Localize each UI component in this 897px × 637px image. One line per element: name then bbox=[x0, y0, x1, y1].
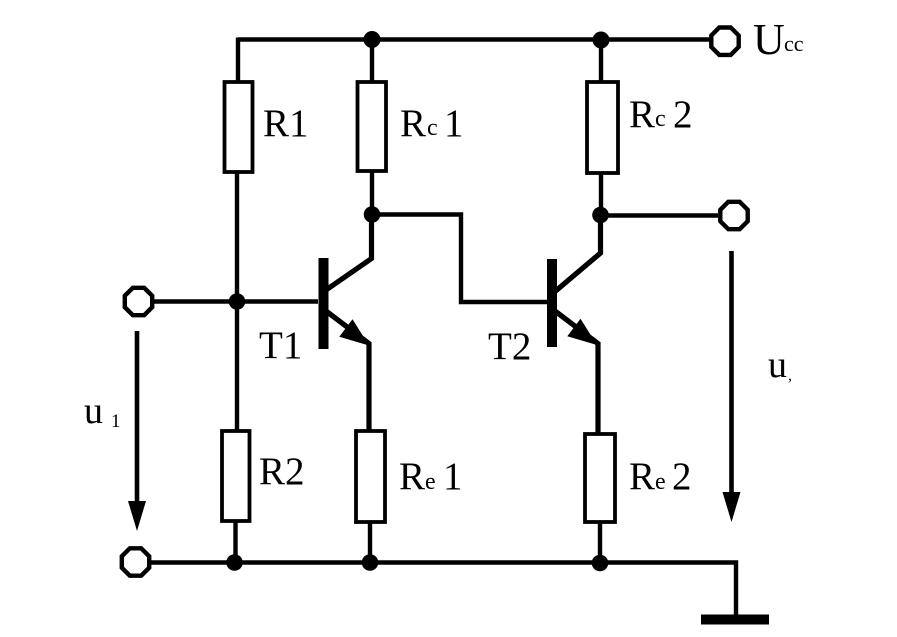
wire output bbox=[601, 213, 718, 217]
wire T1 base input bbox=[153, 299, 318, 303]
ground bbox=[701, 615, 769, 625]
transistor T1 bbox=[319, 214, 372, 432]
terminal Ucc bbox=[711, 28, 738, 55]
svg-text:R: R bbox=[400, 102, 426, 145]
svg-text:1: 1 bbox=[444, 102, 464, 145]
wire coupling T1 collector to T2 base bbox=[372, 215, 547, 303]
node top rail Rc2 dot bbox=[593, 32, 610, 49]
resistor Re2 bbox=[585, 434, 615, 522]
svg-text:cc: cc bbox=[784, 31, 804, 56]
resistor Rc1 bbox=[358, 82, 387, 171]
arrow u output voltage bbox=[723, 251, 741, 522]
node input junction dot bbox=[229, 293, 246, 310]
label u output bbox=[768, 344, 792, 386]
label Re2 bbox=[629, 455, 692, 498]
resistor R1 bbox=[225, 82, 253, 172]
terminal bottom-left bbox=[122, 548, 149, 575]
svg-text:e: e bbox=[655, 469, 666, 495]
wire bottom ground rail bbox=[151, 563, 736, 617]
transistor T2 bbox=[547, 215, 601, 435]
svg-text:R1: R1 bbox=[263, 102, 309, 145]
terminal output bbox=[720, 202, 747, 229]
svg-text:1: 1 bbox=[111, 411, 121, 432]
node T2 collector dot bbox=[592, 207, 609, 224]
svg-text:R: R bbox=[629, 455, 655, 498]
arrow u1 input voltage bbox=[128, 331, 146, 531]
resistor Re1 bbox=[356, 431, 385, 522]
node top rail Rc1 dot bbox=[364, 31, 381, 48]
svg-text:T2: T2 bbox=[488, 325, 531, 368]
wire Re2 bottom stub bbox=[598, 522, 602, 564]
svg-text:u: u bbox=[768, 344, 787, 386]
node bottom Re1 dot bbox=[362, 554, 379, 571]
svg-text:R: R bbox=[399, 455, 425, 498]
wire Rc1 bottom stub bbox=[370, 171, 374, 215]
label Rc2 bbox=[629, 93, 693, 136]
node bottom Re2 dot bbox=[592, 555, 609, 572]
wire Rc1 top stub bbox=[370, 40, 374, 85]
svg-text:U: U bbox=[753, 15, 785, 64]
svg-text:c: c bbox=[655, 106, 666, 132]
wire Re1 bottom stub bbox=[368, 521, 372, 563]
wire R2 bottom stub bbox=[233, 521, 237, 563]
wire top supply rail bbox=[238, 37, 710, 41]
svg-text:c: c bbox=[427, 115, 438, 141]
svg-text:u: u bbox=[84, 390, 103, 432]
wire R1 top stub bbox=[236, 38, 240, 85]
wire Rc2 top stub bbox=[599, 40, 603, 84]
svg-text:e: e bbox=[425, 469, 436, 495]
wire R1 to R2 bbox=[235, 172, 239, 432]
svg-text:2: 2 bbox=[673, 93, 693, 136]
svg-text:2: 2 bbox=[672, 455, 692, 498]
svg-text:1: 1 bbox=[443, 455, 463, 498]
label Rc1 bbox=[400, 102, 464, 145]
svg-text:T1: T1 bbox=[259, 324, 302, 367]
label u1 bbox=[84, 390, 121, 432]
node T1 collector dot bbox=[364, 206, 381, 223]
label Ucc bbox=[753, 15, 804, 64]
label Re1 bbox=[399, 455, 463, 498]
terminal input bbox=[125, 288, 152, 315]
wire Rc2 bottom stub bbox=[599, 173, 603, 216]
resistor R2 bbox=[222, 431, 250, 521]
svg-text:R2: R2 bbox=[259, 450, 305, 493]
svg-text:R: R bbox=[629, 93, 655, 136]
svg-text:,: , bbox=[788, 367, 792, 384]
node bottom R2 dot bbox=[226, 554, 243, 571]
resistor Rc2 bbox=[587, 82, 618, 173]
